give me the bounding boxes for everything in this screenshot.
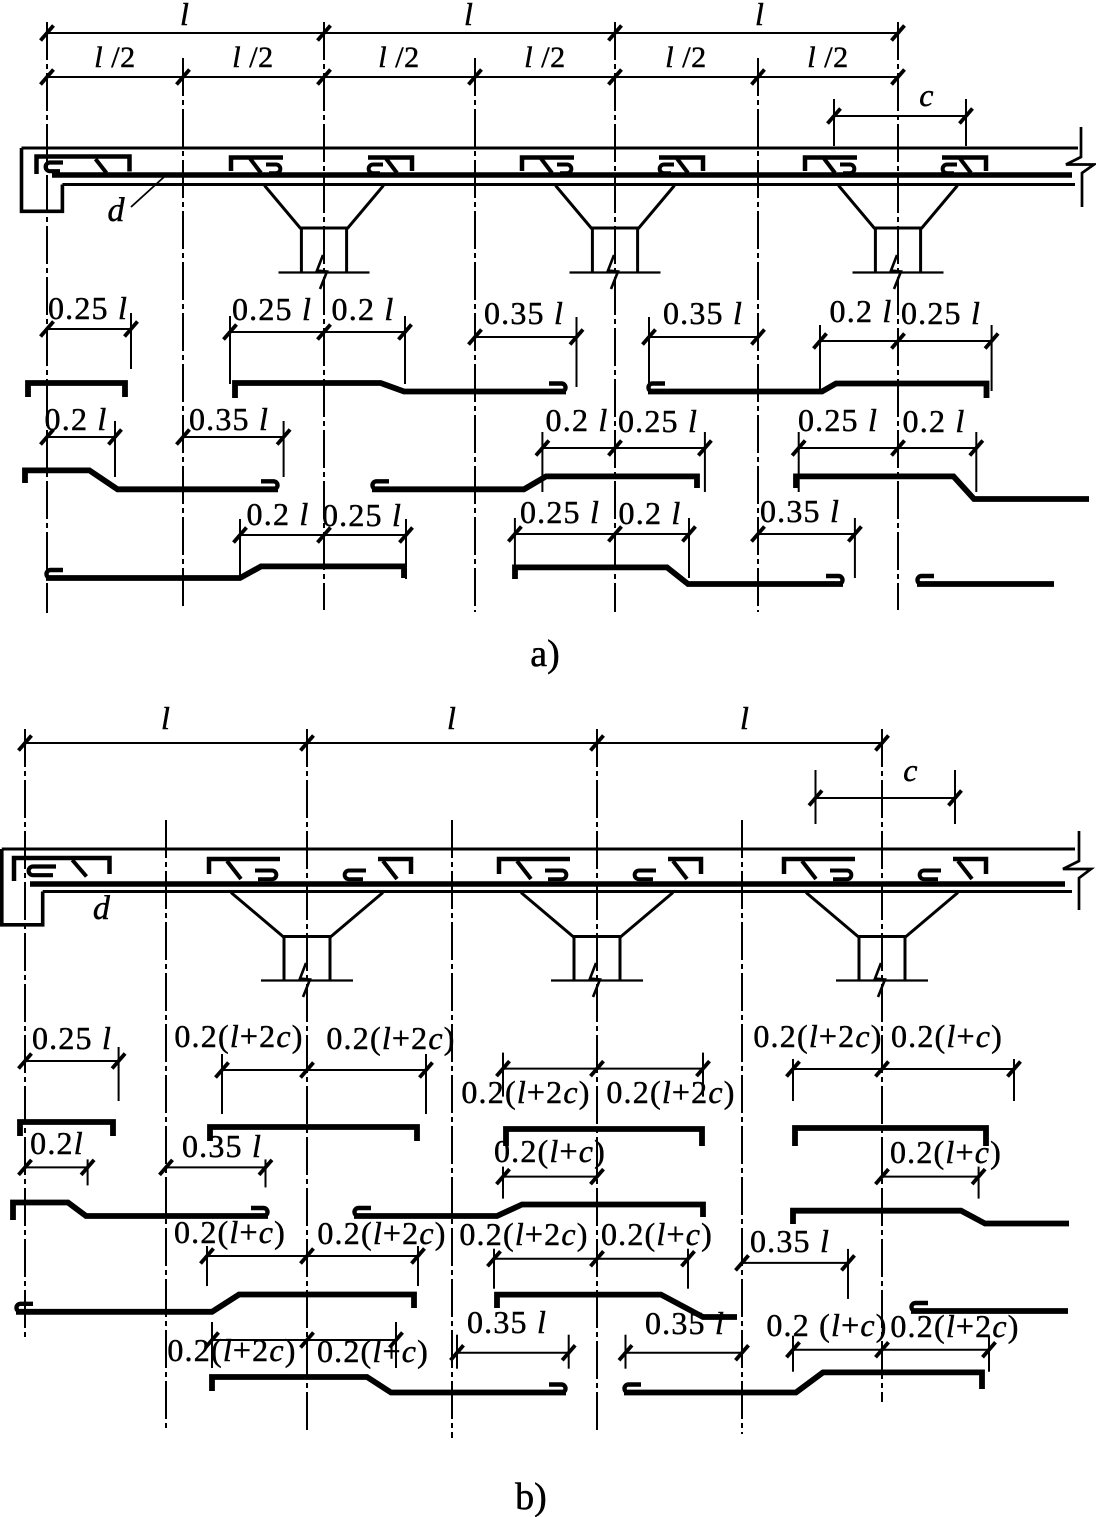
support detail left slash at column B3	[517, 861, 531, 879]
rebar row2 barB (a)	[372, 476, 697, 489]
section b grid line 3 (column axis)	[306, 729, 308, 1430]
svg-text:0.2l: 0.2l	[30, 1125, 84, 1161]
label d with leader (a)	[108, 177, 165, 229]
svg-text:c: c	[903, 752, 918, 788]
section b grid line 1 (edge axis)	[24, 729, 26, 1341]
support detail left top bar at column A4	[805, 158, 857, 172]
column capital at column B2	[231, 893, 383, 937]
svg-text:0.2 l: 0.2 l	[830, 293, 893, 329]
svg-text:0.35 l: 0.35 l	[182, 1128, 262, 1164]
svg-text:0.35 l: 0.35 l	[467, 1304, 547, 1340]
support detail left hook at column A2	[266, 165, 280, 174]
edge beam (a)	[22, 148, 63, 211]
svg-text:l: l	[180, 0, 190, 32]
edge support bent-bar slash (a)	[96, 159, 107, 173]
section a grid line 1 (edge axis)	[46, 22, 48, 613]
rebar row3 barB (a)	[515, 567, 843, 584]
dim 0.2(l+c) row2 col4 (b)	[876, 1167, 986, 1199]
svg-text:l /2: l /2	[232, 41, 274, 74]
svg-text:l /2: l /2	[807, 41, 849, 74]
column shaft at column B2	[284, 937, 330, 981]
svg-text:0.25 l: 0.25 l	[520, 494, 600, 530]
svg-text:0.2 l: 0.2 l	[332, 291, 395, 327]
rebar row2 barB (b)	[354, 1205, 703, 1218]
support detail left hook at column A3	[557, 165, 571, 174]
support detail left slash at column B4	[802, 861, 816, 879]
dim 0.2l row2 left (a)	[41, 421, 122, 477]
support detail left slash at column B2	[227, 861, 241, 879]
support detail right top bar at column B4	[953, 859, 986, 874]
svg-text:0.35 l: 0.35 l	[645, 1305, 725, 1341]
column capital at column B3	[521, 893, 673, 937]
svg-text:d: d	[93, 890, 111, 927]
support detail left top bar at column B3	[499, 859, 570, 874]
svg-text:0.2(l+2c): 0.2(l+2c)	[461, 1074, 590, 1110]
rebar row4 barA (b)	[212, 1377, 566, 1393]
section a grid line 5 (column axis)	[614, 22, 616, 612]
svg-text:l: l	[755, 0, 765, 32]
svg-text:0.2(l+c): 0.2(l+c)	[317, 1333, 429, 1369]
svg-text:0.2(l+c): 0.2(l+c)	[494, 1133, 606, 1169]
dim 0.25l row1 left (b)	[19, 1047, 126, 1101]
svg-text:l: l	[740, 700, 750, 736]
dim 0.2(l+c) row2 col3 (b)	[497, 1167, 604, 1199]
support detail left top bar at column A3	[522, 158, 574, 172]
rebar row1 cap1 (b)	[20, 1122, 113, 1136]
slab top line (a)	[22, 147, 1079, 150]
edge support top bar (a)	[37, 157, 130, 175]
svg-text:0.2(l+2c): 0.2(l+2c)	[753, 1018, 882, 1054]
edge support hook (a)	[46, 163, 63, 172]
svg-text:0.2 l: 0.2 l	[903, 403, 966, 439]
rebar row2 barA (a)	[25, 470, 278, 489]
dim 0.2l/0.25l row1 col4 (a)	[814, 325, 999, 391]
rebar row3 barA (a)	[46, 566, 404, 578]
dim 0.25l/0.2l row2 col4 (a)	[792, 432, 983, 492]
section a grid line 2 (midspan axis)	[182, 58, 184, 610]
svg-text:0.35 l: 0.35 l	[750, 1223, 830, 1259]
section a grid line 7 (column axis)	[897, 22, 899, 610]
support detail left top bar at column B2	[209, 859, 280, 874]
dimension c (a)	[828, 99, 973, 146]
support detail right top bar at column A4	[942, 158, 986, 172]
svg-text:0.2(l+c): 0.2(l+c)	[174, 1214, 286, 1250]
svg-text:c: c	[919, 77, 934, 113]
rebar row2 barC (a)	[796, 476, 1089, 499]
svg-text:0.2(l+c): 0.2(l+c)	[601, 1216, 713, 1252]
edge support top bar (b)	[14, 858, 110, 881]
support detail left top bar at column A2	[231, 158, 283, 172]
support detail right slash at column B2	[383, 861, 397, 879]
slab bottom rebar (a)	[52, 172, 1072, 178]
support detail left slash at column A2	[250, 159, 261, 174]
support detail left hook at column B2	[255, 871, 276, 880]
rebar row3 barC (b)	[911, 1303, 1068, 1311]
dim 0.25l row1 left (a)	[41, 313, 138, 369]
rebar row1 bar2 (a)	[235, 383, 566, 398]
dim 0.35l row3 span3 (b)	[736, 1249, 855, 1299]
dim 0.2l/0.25l row3 col2 (a)	[234, 519, 413, 579]
slab bottom rebar (b)	[30, 881, 1065, 887]
section b grid line 2 (midspan axis)	[165, 820, 167, 1432]
dim 0.35l row2 left (b)	[160, 1159, 273, 1187]
edge beam (b)	[2, 849, 43, 925]
section b grid line 7 (column axis)	[881, 729, 883, 1402]
edge support hook (b)	[29, 867, 56, 876]
support detail right top bar at column A3	[659, 158, 703, 172]
rebar row4 barB (b)	[624, 1372, 982, 1392]
svg-text:0.35 l: 0.35 l	[484, 295, 564, 331]
dim 0.35l row1 span2 (a)	[469, 317, 584, 387]
rebar row1 bar3 (a)	[648, 384, 987, 399]
dim 0.35l row2 left (a)	[177, 421, 291, 477]
column shaft at column B4	[859, 937, 905, 981]
slab bottom line (a)	[62, 183, 1075, 186]
svg-text:0.2 (l+c): 0.2 (l+c)	[766, 1307, 887, 1343]
svg-text:0.2(l+c): 0.2(l+c)	[890, 1134, 1002, 1170]
svg-text:0.2 l: 0.2 l	[45, 401, 108, 437]
column shaft at column A4	[875, 228, 920, 273]
column break line at column A2	[279, 255, 370, 289]
svg-text:l /2: l /2	[94, 41, 136, 74]
dimension line l spans (b)	[19, 736, 889, 751]
dim 0.35l row3 span3 (a)	[752, 518, 862, 578]
dim 0.2l/0.25l row2 col3 (a)	[536, 432, 712, 492]
rebar row3 barA (b)	[16, 1295, 414, 1312]
section a grid line 3 (column axis)	[323, 22, 325, 610]
column capital at column A2	[265, 186, 384, 229]
dim 0.2(l+2c)/0.2(l+c) row3 col3 (b)	[488, 1249, 695, 1289]
column break line at column B3	[551, 963, 643, 997]
support detail right hook at column A3	[660, 165, 674, 174]
svg-text:0.25 l: 0.25 l	[322, 497, 402, 533]
rebar row2 barC (b)	[793, 1211, 1069, 1224]
support detail left hook at column B4	[830, 871, 851, 880]
slab right break symbol (a)	[1066, 127, 1094, 207]
dim 0.2l row2 left (b)	[19, 1159, 95, 1185]
support detail right hook at column B2	[345, 871, 366, 880]
slab right break symbol (b)	[1063, 831, 1091, 910]
support detail right top bar at column A2	[368, 158, 412, 172]
rebar row1 bar1 cap (a)	[28, 383, 125, 397]
support detail right hook at column A4	[943, 165, 957, 174]
svg-text:0.2(l+2c): 0.2(l+2c)	[606, 1074, 735, 1110]
dim 0.35l row4 span2-left (b)	[451, 1335, 576, 1369]
support detail left slash at column A3	[541, 159, 552, 174]
column shaft at column A3	[592, 228, 637, 273]
column shaft at column B3	[574, 937, 620, 981]
svg-text:0.2 l: 0.2 l	[247, 496, 310, 532]
section b grid line 5 (column axis)	[596, 729, 598, 1430]
support detail right hook at column A2	[369, 165, 383, 174]
dim 0.2(l+c)/0.2(l+2c) row3 col2 (b)	[201, 1246, 425, 1286]
svg-text:l /2: l /2	[665, 41, 707, 74]
svg-text:a): a)	[530, 633, 560, 675]
support detail right slash at column B3	[673, 861, 687, 879]
support detail left hook at column B3	[545, 871, 566, 880]
edge support bent-bar slash (b)	[72, 860, 86, 877]
dimension line l/2 row (a)	[41, 70, 905, 85]
dim 0.35l row1 span3 (a)	[643, 317, 765, 387]
column shaft at column A2	[301, 228, 346, 273]
dimension line l spans (a)	[41, 26, 905, 41]
svg-text:0.2(l+c): 0.2(l+c)	[891, 1018, 1003, 1054]
svg-text:0.2(l+2c): 0.2(l+2c)	[167, 1332, 296, 1368]
svg-text:l /2: l /2	[524, 41, 566, 74]
dim 0.2(l+c)/0.2(l+2c) row4 col4 (b)	[787, 1336, 996, 1372]
svg-text:l: l	[447, 700, 457, 736]
rebar row1 cap2 (b)	[210, 1127, 417, 1141]
svg-text:0.2 l: 0.2 l	[619, 495, 682, 531]
support detail right hook at column B4	[920, 871, 941, 880]
column capital at column A3	[556, 186, 675, 229]
dimension c (b)	[809, 770, 962, 824]
dim 0.2(l+2c)/0.2(l+c) row1 col4 (b)	[787, 1059, 1021, 1101]
svg-text:0.25 l: 0.25 l	[32, 1020, 112, 1056]
svg-text:d: d	[108, 192, 126, 229]
svg-text:0.2 l: 0.2 l	[546, 402, 609, 438]
section b grid line 6 (midspan axis)	[741, 820, 743, 1434]
dim 0.2(l+2c) pair row1 col3 (b)	[497, 1053, 710, 1097]
dim 0.2(l+2c)/0.2(l+c) row4 col2 (b)	[206, 1322, 403, 1368]
column break line at column A3	[570, 255, 661, 289]
section a grid line 6 (midspan axis)	[757, 58, 759, 612]
rebar row3 barB (b)	[497, 1295, 737, 1317]
rebar row2 barA (b)	[13, 1203, 268, 1221]
svg-text:0.2(l+2c): 0.2(l+2c)	[459, 1216, 588, 1252]
svg-text:0.2(l+2c): 0.2(l+2c)	[890, 1308, 1019, 1344]
rebar row3 barC (a)	[917, 576, 1054, 584]
slab bottom line (b)	[43, 890, 1072, 893]
support detail right hook at column B3	[635, 871, 656, 880]
section a grid line 4 (midspan axis)	[474, 58, 476, 612]
svg-text:0.35 l: 0.35 l	[663, 295, 743, 331]
column capital at column B4	[806, 893, 958, 937]
svg-text:0.2(l+2c): 0.2(l+2c)	[317, 1215, 446, 1251]
svg-text:0.25 l: 0.25 l	[48, 290, 128, 326]
column break line at column B4	[836, 963, 928, 997]
dim 0.25l/0.2l row3 col3 (a)	[508, 518, 695, 578]
dim 0.35l row4 span2-right (b)	[619, 1335, 749, 1369]
section b grid line 4 (midspan axis)	[451, 820, 453, 1438]
svg-text:0.35 l: 0.35 l	[760, 493, 840, 529]
column capital at column A4	[839, 186, 958, 229]
svg-text:0.25 l: 0.25 l	[232, 291, 312, 327]
svg-text:0.25 l: 0.25 l	[798, 402, 878, 438]
svg-text:0.25 l: 0.25 l	[901, 295, 981, 331]
svg-text:l: l	[161, 700, 171, 736]
column break line at column B2	[261, 963, 353, 997]
support detail left hook at column A4	[840, 165, 854, 174]
column break line at column A4	[853, 255, 944, 289]
svg-text:0.25 l: 0.25 l	[618, 403, 698, 439]
rebar row1 cap3 (b)	[506, 1129, 702, 1146]
slab top line (b)	[2, 848, 1075, 851]
rebar row1 cap4 (b)	[795, 1128, 986, 1146]
support detail right slash at column A2	[386, 159, 397, 174]
svg-text:0.35 l: 0.35 l	[189, 401, 269, 437]
support detail right slash at column A4	[960, 159, 971, 174]
support detail right top bar at column B3	[668, 859, 701, 874]
svg-text:b): b)	[515, 1476, 547, 1517]
dim 0.25l/0.2l row1 col2 (a)	[224, 316, 412, 384]
support detail right slash at column B4	[958, 861, 972, 879]
svg-text:0.2(l+2c): 0.2(l+2c)	[326, 1020, 455, 1056]
dim 0.2(l+2c) pair row1 col2 (b)	[216, 1054, 433, 1114]
svg-text:l: l	[464, 0, 474, 32]
support detail right slash at column A3	[677, 159, 688, 174]
support detail right top bar at column B2	[378, 859, 411, 874]
svg-text:l /2: l /2	[378, 41, 420, 74]
support detail left top bar at column B4	[784, 859, 855, 874]
support detail left slash at column A4	[824, 159, 835, 174]
svg-text:0.2(l+2c): 0.2(l+2c)	[174, 1018, 303, 1054]
